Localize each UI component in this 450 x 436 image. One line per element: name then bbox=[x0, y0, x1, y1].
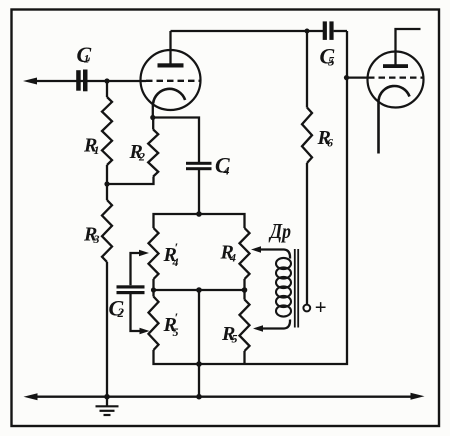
tube V1 cathode arc bbox=[153, 89, 185, 104]
wire V2 cathode lead bbox=[377, 100, 380, 154]
wire input net at y=81 bbox=[33, 80, 146, 82]
tube V1 anode plate bbox=[158, 63, 184, 67]
wire R1 bottom to R2 bottom bbox=[107, 177, 154, 185]
junction node top rail/R6 bbox=[305, 29, 310, 34]
junction node ground bbox=[104, 394, 110, 400]
svg-text:4: 4 bbox=[223, 164, 230, 178]
wire C4 to top rail of divider bbox=[198, 170, 200, 214]
label R5 bbox=[221, 323, 238, 346]
arrow choke tap to R5 bbox=[253, 325, 263, 331]
resistor R4 bbox=[240, 228, 250, 279]
svg-text:′: ′ bbox=[175, 310, 179, 325]
wire C2 top tap bbox=[131, 253, 142, 285]
label R3 bbox=[83, 224, 100, 247]
tube V1 grid (dashed) bbox=[146, 80, 200, 82]
svg-text:1: 1 bbox=[94, 143, 100, 157]
resistor R5prime bbox=[149, 297, 159, 351]
wire mid vertical to bottom bbox=[198, 290, 200, 397]
junction node bottom/vert bbox=[196, 394, 202, 400]
wire C2 bottom tap bbox=[131, 294, 142, 331]
svg-text:2: 2 bbox=[138, 150, 145, 164]
arrow C2 tap to R4prime bbox=[139, 250, 149, 256]
inductor Dr coil bbox=[276, 258, 291, 317]
wire V1 cathode lead bbox=[152, 104, 154, 118]
svg-text:3: 3 bbox=[93, 232, 100, 246]
label R1 bbox=[83, 135, 100, 158]
wire anode V1 to C5 (top rail) bbox=[171, 30, 324, 32]
junction node grid2 bbox=[344, 75, 349, 80]
wire R1 bottom to R3 top bbox=[106, 165, 108, 200]
arrow input (left) bbox=[23, 78, 37, 85]
resistor R6 bbox=[302, 108, 312, 164]
svg-text:+: + bbox=[315, 295, 327, 319]
label C1 bbox=[77, 42, 92, 67]
resistor R1 bbox=[102, 97, 112, 165]
arrow bottom right bbox=[411, 393, 425, 400]
label R5prime bbox=[163, 310, 179, 339]
junction node mid/vert bbox=[196, 287, 202, 293]
junction node R4p/R5p bbox=[151, 287, 156, 292]
svg-text:4: 4 bbox=[172, 255, 179, 269]
wire ground rail (bottom) bbox=[33, 396, 415, 398]
tube V2 cathode arc bbox=[379, 86, 410, 100]
label R4 bbox=[220, 242, 237, 265]
label C4 bbox=[215, 153, 230, 178]
junction node R4/R5 bbox=[242, 287, 248, 293]
junction node cathode1/R2/C4 bbox=[150, 115, 155, 120]
label R6 bbox=[317, 127, 334, 150]
junction node lower/vert bbox=[196, 361, 202, 367]
svg-text:2: 2 bbox=[117, 305, 125, 320]
svg-text:5: 5 bbox=[328, 54, 335, 69]
label R4prime bbox=[163, 240, 179, 269]
capacitor C4 bbox=[186, 162, 212, 170]
tube V1 envelope bbox=[141, 50, 201, 110]
svg-text:5: 5 bbox=[173, 325, 179, 339]
junction node R1/R2/R3 bbox=[104, 181, 109, 186]
resistor R2 bbox=[148, 130, 158, 177]
wire top rail R4p-R4 bbox=[154, 214, 245, 228]
svg-text:6: 6 bbox=[327, 136, 333, 150]
tube V2 envelope bbox=[368, 52, 424, 108]
capacitor C2 bbox=[117, 285, 145, 294]
svg-text:′: ′ bbox=[175, 240, 179, 255]
wire V2 grid lead bbox=[347, 76, 369, 78]
wire lower rail bbox=[154, 31, 348, 364]
label C5 bbox=[320, 44, 336, 69]
wire choke top lead bbox=[259, 250, 290, 259]
ground bbox=[96, 397, 119, 415]
wire choke bottom lead bbox=[261, 320, 290, 329]
inductor Dr core bbox=[295, 249, 298, 328]
arrow choke tap to R4 bbox=[251, 246, 261, 252]
wire V1 anode lead bbox=[169, 31, 171, 65]
wire C5 right to corner bbox=[334, 30, 347, 32]
resistor R3 bbox=[102, 200, 112, 262]
label R2 bbox=[129, 141, 146, 164]
tube V2 grid (dashed) bbox=[368, 76, 423, 78]
wire R3 bottom to ground rail bbox=[106, 262, 108, 397]
wire cathode1 to C4 bbox=[153, 118, 199, 163]
wire R1 top stub bbox=[106, 81, 108, 97]
terminal plus bbox=[303, 305, 310, 312]
capacitor C1 bbox=[76, 70, 87, 92]
svg-text:1: 1 bbox=[84, 52, 90, 66]
label C2 bbox=[109, 296, 125, 321]
wire R6 to plus terminal bbox=[306, 163, 308, 305]
arrow bottom left bbox=[24, 393, 38, 400]
svg-text:5: 5 bbox=[232, 332, 238, 346]
svg-text:4: 4 bbox=[229, 251, 236, 265]
wire R2 top stub bbox=[152, 118, 154, 130]
wire V2 anode lead bbox=[396, 29, 421, 65]
resistor R5 bbox=[240, 300, 250, 352]
arrow C2 tap to R5prime bbox=[140, 328, 150, 334]
tube V2 anode plate bbox=[383, 64, 408, 68]
wire mid rail bbox=[152, 279, 154, 297]
junction node C4/top rail bbox=[196, 211, 202, 217]
capacitor C5 bbox=[323, 21, 334, 40]
svg-text:Др: Др bbox=[268, 219, 291, 243]
junction node grid1/R1 bbox=[104, 78, 109, 83]
wire R6 top stub bbox=[306, 31, 308, 108]
resistor R4prime bbox=[149, 228, 159, 279]
